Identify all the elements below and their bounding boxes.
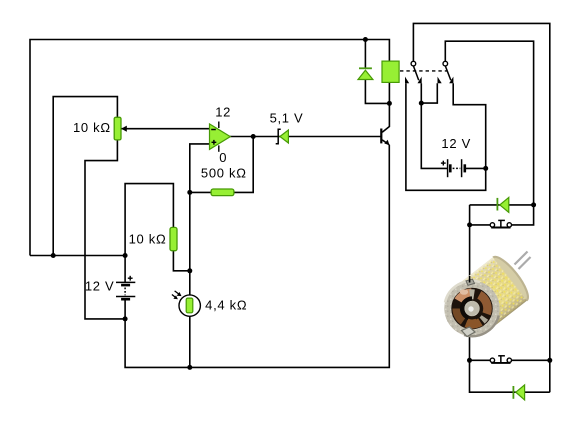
svg-text:10 kΩ: 10 kΩ bbox=[73, 120, 111, 135]
svg-text:500 kΩ: 500 kΩ bbox=[201, 166, 247, 181]
svg-text:12 V: 12 V bbox=[441, 136, 471, 151]
svg-text:12: 12 bbox=[215, 105, 231, 120]
svg-text:12 V: 12 V bbox=[85, 278, 115, 293]
svg-text:10 kΩ: 10 kΩ bbox=[129, 231, 167, 246]
svg-text:4,4 kΩ: 4,4 kΩ bbox=[205, 297, 247, 312]
svg-text:5,1 V: 5,1 V bbox=[270, 110, 304, 125]
svg-text:0: 0 bbox=[219, 150, 227, 165]
